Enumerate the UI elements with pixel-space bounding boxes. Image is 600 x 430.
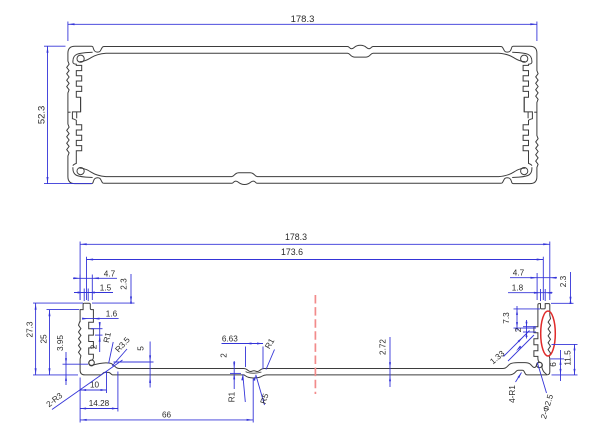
dim 2 left teeth — [91, 328, 103, 330]
top view: right wall inner face with teeth and mid joint — [523, 63, 532, 166]
svg-text:6: 6 — [549, 362, 558, 367]
svg-text:1.6: 1.6 — [106, 309, 118, 318]
dim 2 right teeth — [523, 326, 536, 328]
svg-text:2: 2 — [219, 353, 228, 358]
svg-text:2: 2 — [514, 327, 523, 332]
label 2-phi2.5 — [537, 363, 546, 394]
dim 1.5 left — [83, 289, 85, 302]
label R3.5 — [112, 349, 127, 366]
label 2-R3 — [52, 360, 123, 410]
dim 10 — [106, 372, 108, 394]
dim 52.3 top view — [44, 45, 66, 47]
dim 2 middle — [230, 372, 241, 374]
svg-text:2: 2 — [89, 344, 98, 349]
bottom view: left wall screw boss circle — [89, 360, 94, 365]
svg-text:1.5: 1.5 — [100, 284, 112, 293]
dim 3.95 — [63, 363, 89, 365]
svg-text:27.3: 27.3 — [26, 321, 35, 337]
svg-text:4.7: 4.7 — [513, 269, 525, 278]
dim 6.63 — [245, 347, 247, 368]
dim 7.3 — [514, 308, 541, 310]
svg-text:2.72: 2.72 — [379, 339, 388, 355]
svg-text:52.3: 52.3 — [37, 106, 48, 125]
dim 1.8 right — [540, 289, 542, 301]
dim 66 — [79, 378, 81, 423]
top view: enclosure section outer outline — [67, 45, 538, 184]
dim 178.3 top view — [67, 22, 69, 42]
bottom view: right wall screw boss circle (phi 2.5) — [537, 362, 543, 368]
dim 4.7 right — [536, 273, 538, 300]
bottom view: middle dip second contour — [246, 372, 262, 374]
dim 6 — [551, 358, 565, 360]
label R1 below dip — [243, 374, 246, 402]
dim 2.3 right — [551, 302, 574, 304]
dim 2.72 — [389, 337, 391, 387]
svg-text:5: 5 — [137, 346, 146, 351]
label 1.33 with double leader — [504, 331, 530, 357]
svg-text:66: 66 — [162, 410, 172, 419]
svg-text:173.6: 173.6 — [281, 247, 303, 257]
svg-text:178.3: 178.3 — [291, 14, 315, 25]
dim 25 — [47, 309, 80, 311]
svg-text:4.7: 4.7 — [104, 269, 116, 278]
top view: left wall inner face with teeth and mid joint — [72, 63, 81, 166]
svg-text:R1: R1 — [228, 391, 237, 402]
svg-text:4-R1: 4-R1 — [508, 385, 517, 403]
svg-text:1.8: 1.8 — [512, 284, 524, 293]
svg-text:3.95: 3.95 — [56, 335, 65, 351]
top view: inner top wall surface with corner hooks — [80, 53, 526, 61]
dim 27.3 — [33, 302, 83, 304]
bottom view: half-shell extrusion profile outline — [84, 303, 547, 375]
dim 11.5 — [552, 343, 578, 345]
label R1 top right of dip — [266, 350, 275, 370]
svg-text:2.3: 2.3 — [120, 278, 129, 290]
svg-text:178.3: 178.3 — [285, 232, 307, 242]
label 4-R1 — [516, 373, 522, 383]
dim 14.28 — [117, 372, 119, 412]
dim 173.6 bottom view — [86, 257, 88, 300]
svg-text:25: 25 — [39, 334, 48, 344]
dim 5 — [114, 361, 154, 363]
top view: inner bottom wall surface with corner hooks — [80, 168, 526, 176]
svg-text:11.5: 11.5 — [564, 350, 573, 366]
red highlight ellipse on right wall serration — [541, 311, 556, 356]
bottom view: right wall, plate bottom and left wall outline — [79, 303, 551, 378]
svg-text:7.3: 7.3 — [502, 312, 511, 324]
svg-text:6.63: 6.63 — [222, 334, 238, 343]
top view: corner cap inner arcs — [73, 52, 93, 62]
top view: shell parting seam ticks on outer edges — [68, 111, 71, 113]
svg-text:2.3: 2.3 — [559, 275, 568, 287]
label R5 below dip — [256, 375, 265, 405]
svg-text:14.28: 14.28 — [89, 399, 110, 408]
red dashed centerline — [314, 295, 316, 394]
label R1 on ramp — [109, 342, 114, 364]
dim 178.3 bottom view — [79, 242, 81, 301]
top view: corner screw boss circles — [77, 55, 84, 62]
dim 4.7 left — [79, 275, 81, 301]
dim 1.6 left — [84, 318, 119, 320]
dim 2.3 left — [130, 274, 132, 303]
